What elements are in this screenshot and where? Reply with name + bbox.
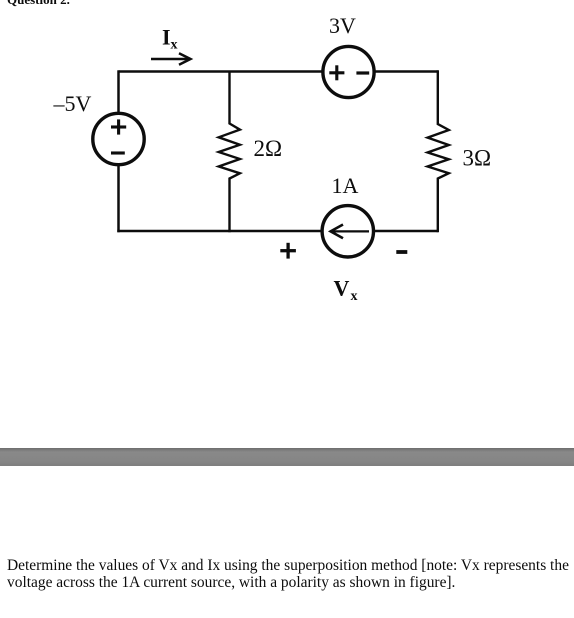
svg-text:I: I <box>162 25 171 50</box>
wire left branch lower <box>117 165 120 232</box>
plus polarity mark for Vx <box>280 243 296 259</box>
plus polarity inside -5V source <box>111 119 126 134</box>
svg-text:–5V: –5V <box>53 91 92 116</box>
resistor 2&#937; (middle branch with leads) <box>219 72 240 233</box>
wire top-left horizontal <box>119 70 323 73</box>
svg-text:Question 2.: Question 2. <box>7 0 70 7</box>
label Ix <box>162 25 178 53</box>
voltage source -5V (circle) <box>93 113 144 164</box>
wire left branch upper <box>117 70 120 112</box>
svg-text:3Ω: 3Ω <box>463 146 492 171</box>
wire bottom-left horizontal <box>117 230 321 233</box>
minus polarity inside -5V source <box>111 151 125 154</box>
current source 1A (circle) <box>322 206 373 257</box>
svg-text:x: x <box>351 289 358 304</box>
label Vx <box>334 276 358 305</box>
wire bottom-right horizontal <box>374 230 438 233</box>
resistor 3&#937; (right branch with leads) <box>428 70 449 232</box>
svg-text:2Ω: 2Ω <box>254 136 283 161</box>
arrow inside 1A source <box>331 225 369 239</box>
arrow for current Ix <box>151 53 191 64</box>
svg-text:1A: 1A <box>332 173 359 198</box>
svg-text:x: x <box>171 38 178 53</box>
svg-text:V: V <box>334 276 350 301</box>
minus polarity mark for Vx <box>396 250 407 254</box>
voltage source 3V (circle) <box>323 46 374 97</box>
minus polarity inside 3V source <box>356 71 369 74</box>
caption paragraph <box>7 557 569 592</box>
gray divider bar <box>0 448 574 466</box>
plus polarity inside 3V source <box>329 65 344 80</box>
svg-text:3V: 3V <box>329 13 356 38</box>
wire top-right horizontal <box>375 70 438 73</box>
